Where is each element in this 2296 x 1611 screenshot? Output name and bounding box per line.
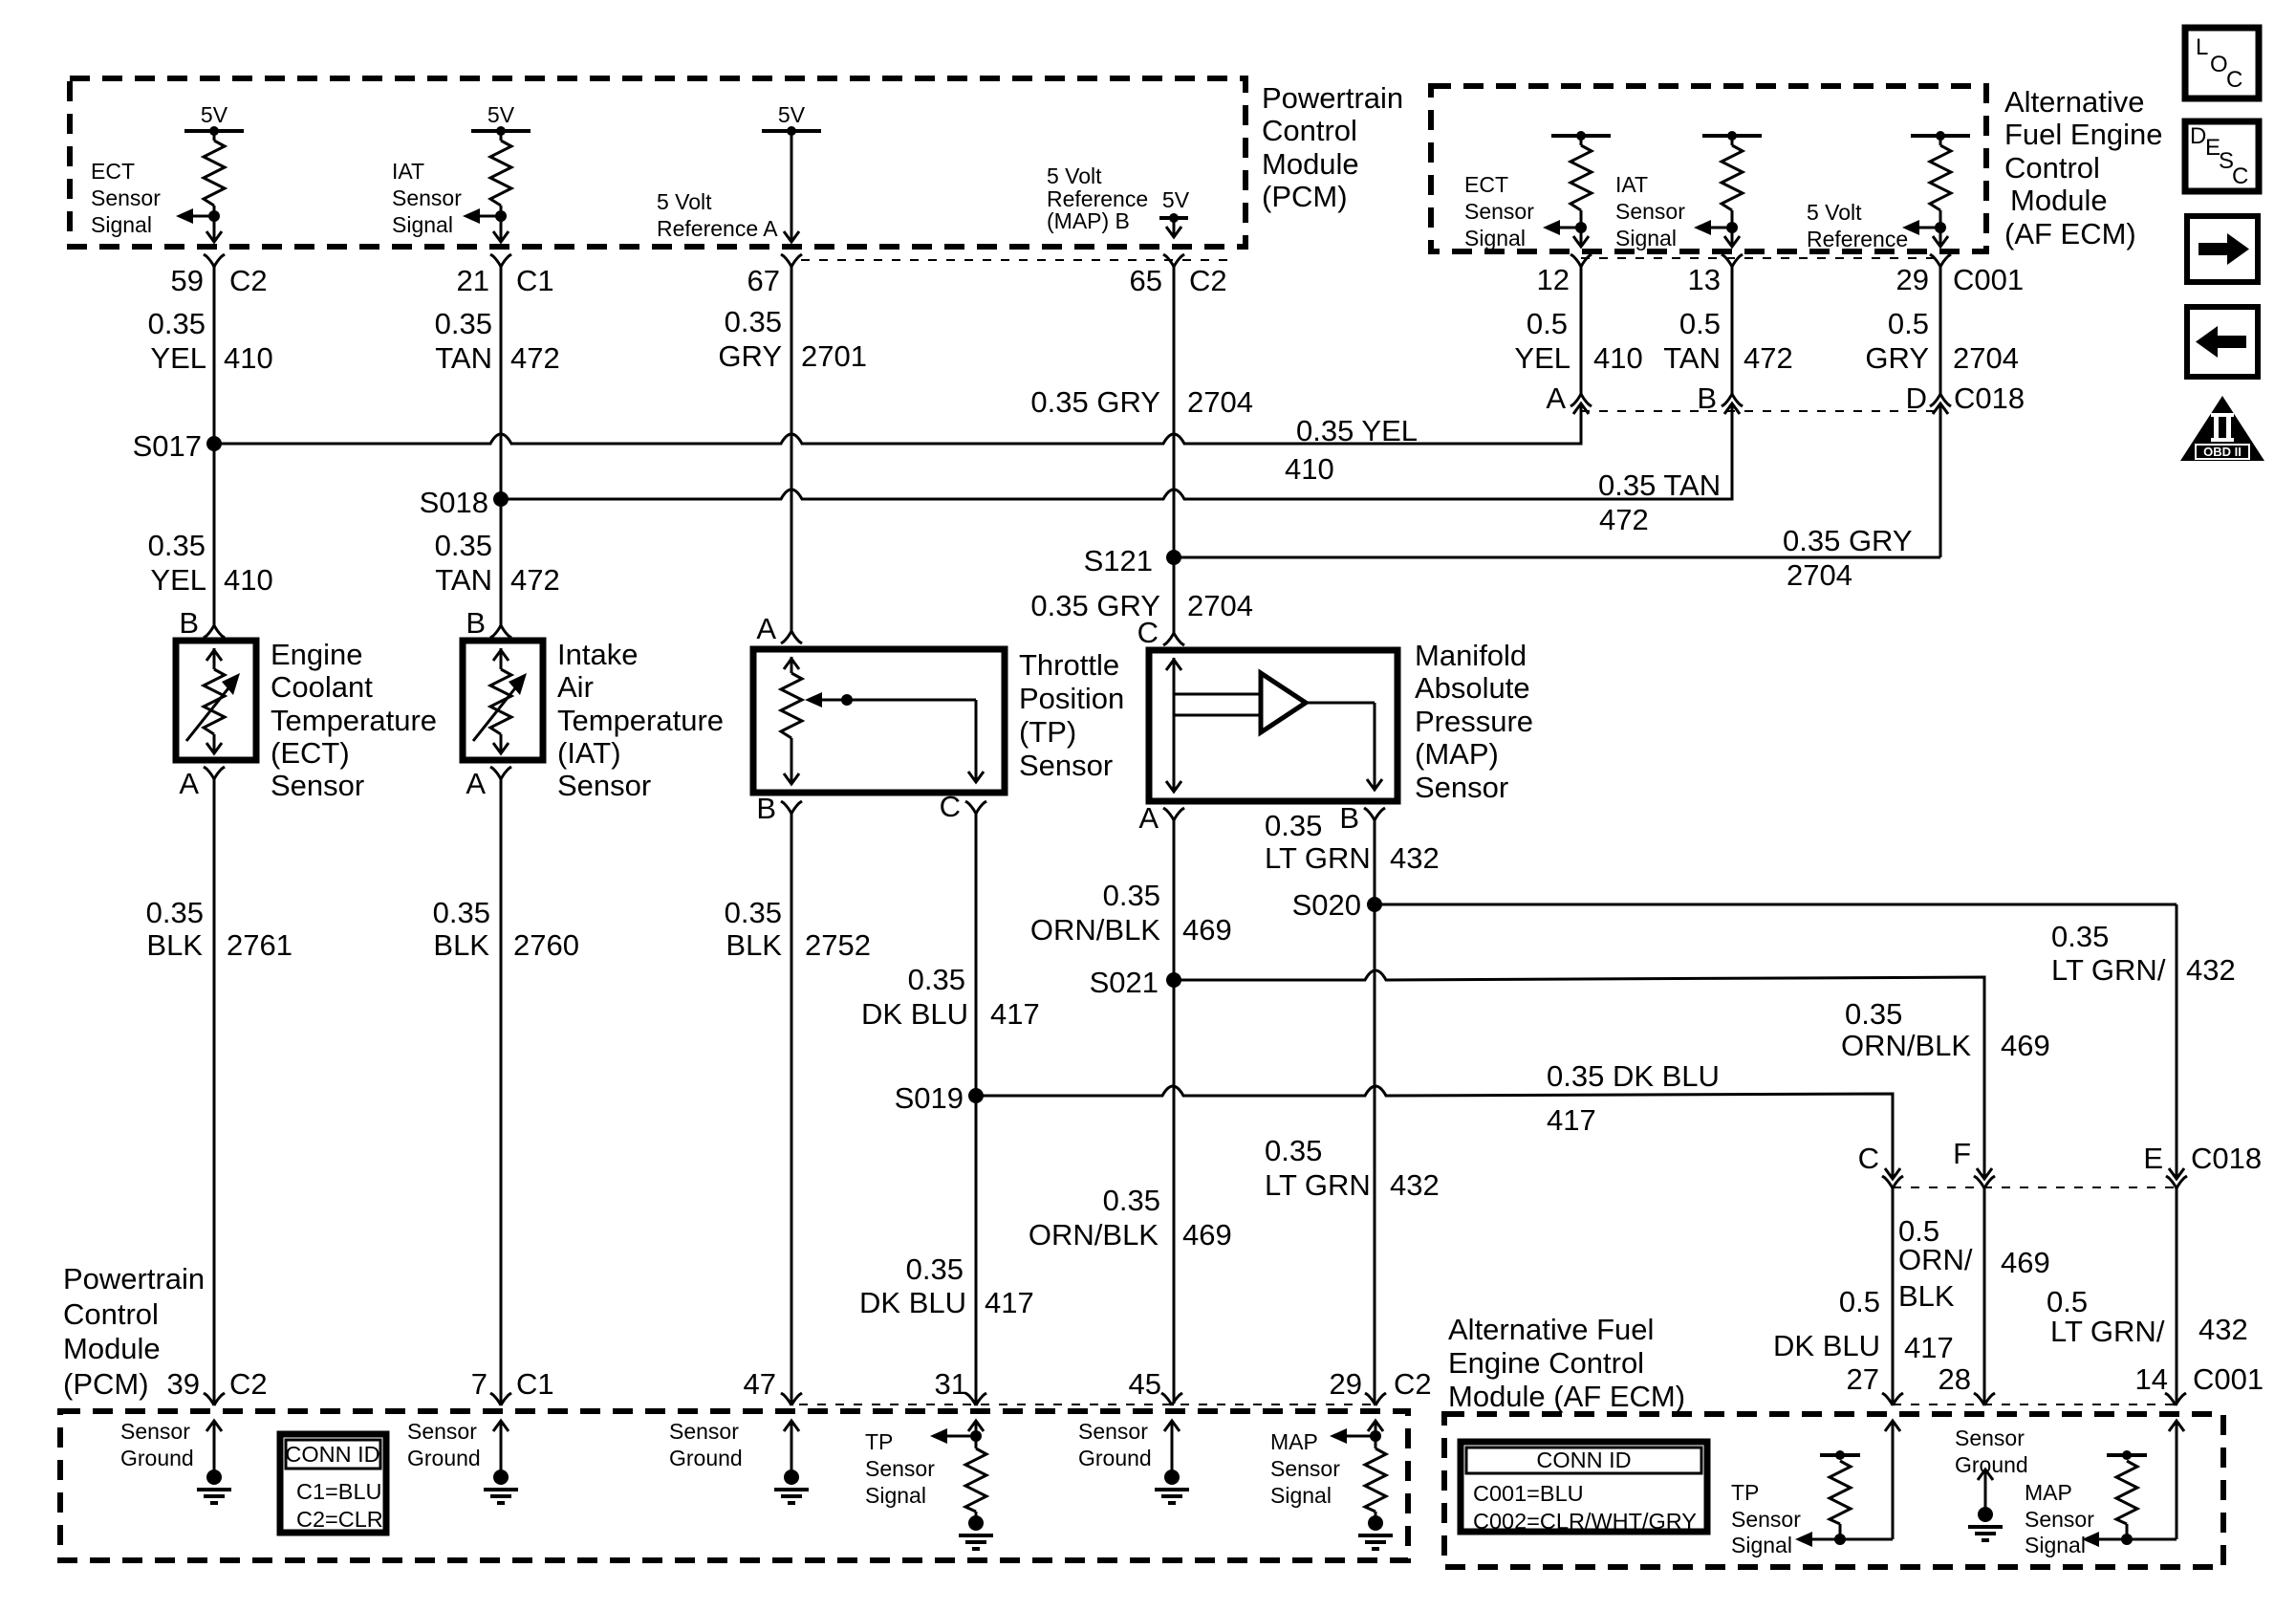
svg-text:Sensor: Sensor [91,185,161,210]
wire 5 Volt Reference (MAP) B output with arrow [1159,216,1188,220]
pin 21 C1 connector [490,254,511,267]
svg-text:LT GRN/: LT GRN/ [2050,1315,2165,1348]
svg-text:BLK: BLK [726,928,782,962]
svg-text:0.35: 0.35 [1265,809,1322,842]
svg-text:Engine: Engine [271,638,363,671]
svg-text:TAN: TAN [1663,341,1721,375]
wire 0.35 TAN 472 (S018 to AF ECM connector B) [501,405,1732,499]
pin 7 C1 connector [490,1393,511,1405]
thermistor ECT sensor box [176,641,256,760]
wire 5 Volt Reference A output with arrow [762,129,821,133]
resistor TP sensor signal pull-down pin 31 [968,1421,984,1431]
svg-text:S018: S018 [420,486,488,519]
connector dashed line C018 (A-B-D) [1581,410,1940,412]
wire 0.35 LT GRN/ 432 (S020 to connector E C018) [1375,903,2177,906]
svg-text:Signal: Signal [865,1483,926,1508]
wire 0.35 GRY 2704 (S121 to AF ECM connector D) [1174,556,1940,559]
sensor MAP pin B connector [1364,808,1385,820]
wire 0.5 ORN/BLK 469 (connector F to pin 28) [1983,1188,1986,1404]
sensor IAT pin A connector [490,767,511,779]
icon arrow right box [2187,216,2258,282]
svg-text:C2: C2 [1189,264,1227,297]
svg-text:5V: 5V [1162,187,1190,212]
svg-text:TP: TP [865,1429,893,1454]
pin 39 C2 connector [204,1393,225,1405]
svg-text:(PCM): (PCM) [1262,180,1348,213]
svg-text:Pressure: Pressure [1415,705,1533,738]
svg-text:(IAT): (IAT) [557,736,621,770]
wire 0.35 GRY 2704 (pin 65 to MAP sensor C) with S121 junction [1173,267,1176,633]
svg-text:Ground: Ground [120,1446,194,1470]
connector dashed line C001 (AF ECM pins 12-29) [1581,257,1940,259]
svg-text:C: C [2232,163,2248,189]
amplifier MAP sensor box [1149,650,1397,801]
module box AF ECM bottom [1444,1414,2223,1567]
svg-text:469: 469 [2001,1246,2050,1279]
svg-text:Sensor: Sensor [1615,199,1685,224]
svg-text:0.35: 0.35 [1265,1134,1322,1167]
svg-text:Throttle: Throttle [1019,648,1119,682]
sensor TP pin B connector [781,801,802,814]
svg-text:YEL: YEL [1514,341,1570,375]
svg-text:2704: 2704 [1953,341,2019,375]
sensor ECT (Engine Coolant Temperature) pin B connector [204,625,225,638]
ground sensor ground (AF ECM pin 28) [1978,1469,1993,1480]
svg-text:469: 469 [1182,1218,1232,1252]
svg-text:0.35: 0.35 [906,1252,964,1286]
svg-text:Reference A: Reference A [657,216,778,241]
svg-text:ORN/BLK: ORN/BLK [1841,1029,1971,1062]
wire 0.5 DK BLU 417 (connector C to pin 27) [1892,1188,1895,1404]
connector A C018 [1570,394,1592,406]
svg-text:(AF ECM): (AF ECM) [2004,217,2136,250]
svg-text:C018: C018 [2191,1142,2262,1175]
connector ID table PCM [280,1434,386,1533]
svg-text:Ground: Ground [1955,1452,2028,1477]
svg-text:13: 13 [1688,263,1721,296]
connector dashed line C2/C1 (PCM pins 47-29) [799,1404,1375,1405]
svg-text:432: 432 [2186,953,2236,987]
svg-text:Ground: Ground [1078,1446,1152,1470]
svg-text:Sensor: Sensor [1955,1426,2025,1450]
svg-text:LT GRN/: LT GRN/ [2051,953,2166,987]
svg-text:Signal: Signal [392,212,453,237]
svg-text:417: 417 [985,1286,1034,1319]
sensor MAP pin A connector [1163,808,1184,820]
thermistor IAT sensor box [463,641,543,760]
pin 29 C2 connector [1365,1393,1386,1405]
svg-text:CONN ID: CONN ID [285,1442,379,1467]
svg-text:Sensor: Sensor [557,769,651,802]
module box PCM bottom (sensor grounds and signals) [60,1411,1408,1560]
svg-text:B: B [179,606,199,640]
svg-text:27: 27 [1847,1362,1879,1396]
pin 47 connector [781,1393,802,1405]
svg-text:(MAP): (MAP) [1415,737,1499,771]
sensor TP (Throttle Position) pin A connector [781,631,802,643]
potentiometer TP sensor box [753,649,1005,793]
svg-text:C: C [2226,67,2242,93]
module box PCM (Powertrain Control Module) [70,78,1245,247]
svg-text:BLK: BLK [433,928,489,962]
svg-text:Engine Control: Engine Control [1448,1346,1644,1380]
wire 0.35 YEL 410 (pin 59 to ECT sensor B) with S017 junction [213,267,216,625]
icon DESC box [2185,121,2259,191]
svg-text:472: 472 [510,341,560,375]
svg-text:0.35: 0.35 [148,307,206,340]
resistor AF ECM ECT pull-up with signal arrow [1551,134,1611,138]
svg-text:Sensor: Sensor [1731,1507,1801,1532]
svg-text:A: A [466,767,486,800]
svg-text:2704: 2704 [1787,558,1852,592]
svg-text:5V: 5V [487,102,515,127]
svg-text:28: 28 [1939,1362,1971,1396]
connector ID table AF ECM [1461,1442,1707,1532]
node S021 splice [1166,972,1181,988]
svg-text:5 Volt: 5 Volt [1047,163,1102,188]
svg-text:Absolute: Absolute [1415,671,1530,705]
svg-text:0.35 DK BLU: 0.35 DK BLU [1547,1059,1720,1093]
svg-text:Powertrain: Powertrain [63,1262,205,1295]
connector E C018 [2166,1176,2187,1188]
svg-text:Position: Position [1019,682,1124,715]
svg-text:7: 7 [471,1367,487,1401]
svg-text:B: B [1697,381,1717,415]
svg-text:0.35 GRY: 0.35 GRY [1030,385,1160,419]
svg-text:Reference: Reference [1807,227,1908,251]
svg-text:Temperature: Temperature [557,704,724,737]
svg-text:5 Volt: 5 Volt [1807,200,1862,225]
svg-text:(ECT): (ECT) [271,736,350,770]
svg-text:0.35 YEL: 0.35 YEL [1296,414,1418,447]
svg-text:C1=BLU: C1=BLU [296,1479,381,1504]
svg-text:0.35: 0.35 [1103,1184,1160,1217]
svg-text:LT GRN: LT GRN [1265,1168,1371,1202]
svg-text:B: B [1339,801,1359,835]
svg-text:S017: S017 [133,429,202,463]
svg-text:Powertrain: Powertrain [1262,81,1403,115]
svg-text:S019: S019 [895,1081,964,1115]
svg-text:Sensor: Sensor [407,1419,477,1444]
svg-text:65: 65 [1130,264,1162,297]
sensor IAT (Intake Air Temperature) pin B connector [490,625,511,638]
svg-text:Signal: Signal [1464,226,1526,250]
svg-text:DK BLU: DK BLU [861,997,968,1031]
svg-text:C: C [1137,616,1159,649]
svg-text:0.5: 0.5 [1888,307,1929,340]
svg-text:0.35: 0.35 [908,963,965,996]
svg-text:Control: Control [1262,114,1357,147]
svg-text:DK BLU: DK BLU [1773,1329,1880,1362]
svg-text:2701: 2701 [801,339,867,373]
svg-text:417: 417 [1904,1331,1954,1364]
svg-text:L: L [2196,34,2208,60]
svg-text:Manifold: Manifold [1415,639,1527,672]
connector D C018 [1930,394,1951,406]
pin 67 connector [781,254,802,267]
wire 0.35 BLK 2761 (ECT sensor A to pin 39) [213,779,216,1404]
svg-text:0.5: 0.5 [1527,307,1568,340]
svg-text:C2: C2 [229,1367,268,1401]
svg-text:Sensor: Sensor [1464,199,1534,224]
svg-text:IAT: IAT [1615,172,1648,197]
node S121 splice [1166,550,1181,565]
svg-text:14: 14 [2135,1362,2168,1396]
connector B C018 [1722,394,1743,406]
svg-text:B: B [756,792,776,825]
svg-text:Sensor: Sensor [1270,1456,1340,1481]
svg-text:A: A [1138,801,1159,835]
svg-text:C001: C001 [1953,263,2024,296]
svg-text:0.35: 0.35 [1845,997,1902,1031]
svg-text:0.35: 0.35 [725,305,782,338]
svg-text:Fuel Engine: Fuel Engine [2004,118,2162,151]
svg-text:C018: C018 [1954,381,2025,415]
svg-text:2704: 2704 [1187,385,1253,419]
icon arrow left box [2187,307,2258,377]
svg-text:2752: 2752 [805,928,871,962]
svg-text:C1: C1 [516,264,554,297]
wire 0.35 DK BLU 417 (S019 to connector C C018) [976,1086,1893,1177]
svg-text:2704: 2704 [1187,589,1253,622]
svg-text:D: D [2190,123,2206,149]
node S018 splice [493,491,509,507]
svg-text:0.35: 0.35 [435,529,492,562]
pin 29 C001 connector [1930,254,1951,267]
svg-text:39: 39 [167,1367,200,1401]
svg-text:67: 67 [747,264,780,297]
svg-text:29: 29 [1896,263,1929,296]
pin 65 C2 connector [1163,254,1184,267]
svg-text:Signal: Signal [1615,226,1677,250]
svg-text:472: 472 [1744,341,1793,375]
svg-text:Alternative: Alternative [2004,85,2144,119]
wire 0.35 LT GRN 432 (MAP sensor B to pin 29) with S020 junction [1374,820,1376,1404]
sensor ECT pin A connector [204,767,225,779]
ground sensor ground pin 39 [206,1421,222,1431]
svg-text:Sensor: Sensor [1078,1419,1148,1444]
wire 0.35 BLK 2752 (TP sensor B to pin 47) [791,814,793,1404]
svg-text:Signal: Signal [1731,1533,1792,1557]
svg-text:12: 12 [1537,263,1570,296]
wire 0.5 TAN 472 (pin 13 to connector B) [1731,267,1734,394]
svg-text:YEL: YEL [150,563,206,597]
svg-text:(TP): (TP) [1019,715,1076,749]
resistor MAP sensor signal pull-down pin 29 [1368,1421,1383,1431]
svg-text:417: 417 [990,997,1040,1031]
svg-text:B: B [466,606,486,640]
svg-text:5 Volt: 5 Volt [657,189,712,214]
svg-text:21: 21 [457,264,489,297]
svg-text:410: 410 [224,341,273,375]
svg-text:Module: Module [63,1332,161,1365]
svg-text:C001=BLU: C001=BLU [1473,1481,1584,1506]
ground sensor ground pin 47 [784,1421,799,1431]
svg-text:432: 432 [1390,841,1440,875]
svg-text:472: 472 [1599,503,1649,536]
svg-text:F: F [1953,1137,1971,1170]
wire 0.5 YEL 410 (pin 12 to connector A) [1580,267,1583,394]
svg-text:Intake: Intake [557,638,638,671]
wire 0.5 GRY 2704 (pin 29 to connector D) [1939,267,1942,394]
svg-text:ECT: ECT [1464,172,1508,197]
svg-text:LT GRN: LT GRN [1265,841,1371,875]
svg-text:Sensor: Sensor [1019,749,1113,782]
sensor MAP (Manifold Absolute Pressure) pin C connector [1163,633,1184,645]
svg-text:IAT: IAT [392,159,424,184]
svg-text:MAP: MAP [1270,1429,1318,1454]
ground sensor ground pin 7 [493,1421,509,1431]
svg-text:ECT: ECT [91,159,135,184]
connector dashed line C018 (C-F-E) [1893,1186,2177,1188]
svg-text:GRY: GRY [1865,341,1929,375]
svg-text:432: 432 [2199,1313,2248,1346]
resistor ECT pull-up with 5V bar and signal arrow [184,129,244,133]
resistor TP sensor signal (AF ECM pin 27) [1820,1453,1860,1457]
wire 0.35 DK BLU 417 (TP sensor C to pin 31) with S019 junction [975,814,978,1404]
svg-text:Sensor: Sensor [1415,771,1508,804]
svg-text:0.5: 0.5 [1679,307,1721,340]
svg-text:469: 469 [2001,1029,2050,1062]
svg-text:MAP: MAP [2025,1480,2072,1505]
svg-text:(MAP) B: (MAP) B [1047,208,1130,233]
svg-text:5V: 5V [201,102,228,127]
svg-text:S021: S021 [1090,966,1159,999]
svg-text:Sensor: Sensor [271,769,364,802]
svg-text:0.35 TAN: 0.35 TAN [1598,468,1721,502]
resistor AF ECM IAT pull-up with signal arrow [1702,134,1762,138]
svg-text:BLK: BLK [146,928,203,962]
wire 0.35 GRY 2701 (pin 67 to TP sensor A) [791,267,793,631]
svg-text:Ground: Ground [669,1446,743,1470]
svg-text:472: 472 [510,563,560,597]
wire 0.35 BLK 2760 (IAT sensor A to pin 7) [500,779,503,1404]
svg-text:S121: S121 [1084,544,1153,577]
svg-text:ORN/BLK: ORN/BLK [1029,1218,1159,1252]
svg-text:TAN: TAN [435,341,492,375]
svg-text:0.5: 0.5 [1839,1285,1880,1318]
svg-text:417: 417 [1547,1103,1596,1137]
svg-text:31: 31 [935,1367,967,1401]
svg-text:A: A [1546,381,1566,415]
wire 0.35 TAN 472 (pin 21 to IAT sensor B) with S018 junction [500,267,503,625]
svg-text:Temperature: Temperature [271,704,437,737]
svg-text:469: 469 [1182,913,1232,947]
resistor MAP sensor signal (AF ECM pin 14) [2107,1453,2147,1457]
wire 0.35 ORN/BLK 469 (S021 to connector F C018) [1174,970,1984,1177]
icon OBD II triangle [2180,396,2264,461]
svg-text:0.35: 0.35 [1103,879,1160,912]
svg-text:0.35: 0.35 [725,896,782,929]
svg-text:(PCM): (PCM) [63,1367,149,1401]
svg-text:Sensor: Sensor [865,1456,935,1481]
pin 31 connector [965,1393,986,1405]
connector dashed line (PCM pins 67-65) [801,259,1235,261]
svg-text:0.35: 0.35 [2051,920,2109,953]
svg-text:Sensor: Sensor [120,1419,190,1444]
svg-text:C: C [1858,1142,1879,1175]
svg-text:D: D [1906,381,1927,415]
svg-text:A: A [756,612,776,645]
module box AF ECM (Alternative Fuel Engine Control Module) [1431,86,1986,251]
pin 27 connector [1882,1393,1903,1405]
svg-text:Sensor: Sensor [392,185,462,210]
svg-text:C001: C001 [2193,1362,2264,1396]
svg-text:47: 47 [744,1367,776,1401]
svg-text:DK BLU: DK BLU [859,1286,966,1319]
node S020 splice [1367,897,1382,912]
svg-text:432: 432 [1390,1168,1440,1202]
node S019 splice [968,1088,984,1103]
svg-text:0.35: 0.35 [146,896,204,929]
svg-text:5V: 5V [778,102,806,127]
resistor AF ECM 5 Volt Reference pull-up with arrow [1911,134,1970,138]
svg-text:C2=CLR: C2=CLR [296,1507,383,1532]
svg-text:Sensor: Sensor [2025,1507,2094,1532]
svg-text:Ground: Ground [407,1446,481,1470]
pin 12 connector [1570,254,1592,267]
svg-text:Signal: Signal [2025,1533,2086,1557]
svg-text:0.35 GRY: 0.35 GRY [1783,524,1913,557]
svg-text:Module: Module [2010,184,2108,217]
wire 0.5 LT GRN/ 432 (connector E to pin 14) [2176,1188,2178,1404]
svg-text:C2: C2 [1394,1367,1432,1401]
ground sensor ground pin 45 [1164,1421,1180,1431]
pin 13 connector [1722,254,1743,267]
svg-text:Module: Module [1262,147,1359,181]
svg-text:S020: S020 [1292,888,1361,922]
svg-text:CONN ID: CONN ID [1536,1448,1631,1472]
sensor TP pin C connector [965,801,986,814]
svg-text:Control: Control [63,1297,159,1331]
pin 45 connector [1161,1393,1182,1405]
svg-text:O: O [2210,52,2228,77]
svg-text:E: E [2143,1142,2163,1175]
svg-text:0.35: 0.35 [148,529,206,562]
connector C C018 [1882,1176,1903,1188]
svg-text:GRY: GRY [718,339,782,373]
svg-text:410: 410 [224,563,273,597]
svg-text:59: 59 [171,264,204,297]
icon LOC box [2185,28,2259,98]
svg-text:410: 410 [1593,341,1643,375]
pin 59 C2 connector [204,254,225,267]
svg-text:ORN/BLK: ORN/BLK [1030,913,1160,947]
svg-text:Module (AF ECM): Module (AF ECM) [1448,1380,1685,1413]
svg-text:C002=CLR/WHT/GRY: C002=CLR/WHT/GRY [1473,1509,1697,1534]
svg-text:TP: TP [1731,1480,1759,1505]
svg-text:BLK: BLK [1898,1279,1955,1313]
svg-text:Coolant: Coolant [271,670,373,704]
svg-text:Sensor: Sensor [669,1419,739,1444]
node S017 splice [206,436,222,451]
svg-text:0.5: 0.5 [2047,1285,2088,1318]
wire 0.35 ORN/BLK 469 (MAP sensor A to pin 45) with S021 junction [1173,820,1176,1404]
svg-text:Signal: Signal [91,212,152,237]
svg-text:ORN/: ORN/ [1898,1243,1973,1276]
svg-text:OBD II: OBD II [2203,445,2242,459]
svg-text:C2: C2 [229,264,268,297]
svg-text:YEL: YEL [150,341,206,375]
svg-text:29: 29 [1330,1367,1362,1401]
svg-text:Alternative Fuel: Alternative Fuel [1448,1313,1654,1346]
pin 14 C001 connector [2165,1393,2186,1405]
connector F C018 [1974,1176,1995,1188]
svg-text:0.35: 0.35 [435,307,492,340]
svg-text:C1: C1 [516,1367,554,1401]
svg-text:2760: 2760 [513,928,579,962]
pin 28 connector [1974,1393,1995,1405]
